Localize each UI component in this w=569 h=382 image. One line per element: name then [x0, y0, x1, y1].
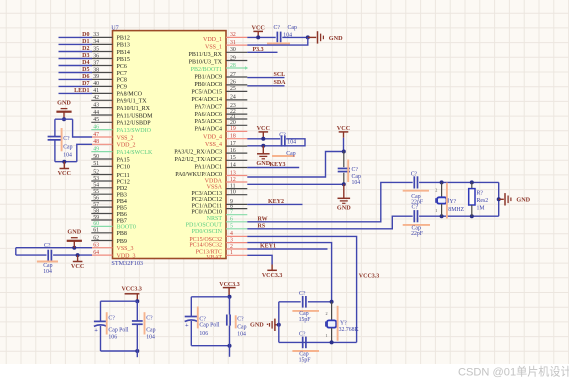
- pin 3 PC14/OSC32 (right): [226, 242, 247, 244]
- svg-text:58: 58: [93, 208, 99, 214]
- pin 53 PC12 (left): [91, 180, 112, 182]
- pin 2 PC13/RTC (right): [226, 248, 247, 250]
- svg-text:15: 15: [230, 155, 236, 161]
- svg-text:C?: C?: [146, 315, 153, 321]
- pin 40 PC9 (left): [91, 85, 112, 87]
- pin 60 BOOT0 (left): [91, 225, 112, 227]
- svg-text:34: 34: [93, 39, 99, 45]
- junction dot: [306, 35, 310, 39]
- svg-text:PB8: PB8: [117, 231, 127, 237]
- svg-text:C?: C?: [412, 205, 419, 211]
- svg-text:GND: GND: [516, 197, 530, 204]
- svg-text:42: 42: [93, 95, 99, 101]
- pin 52 PC11 (left): [91, 174, 112, 176]
- svg-text:12: 12: [230, 177, 236, 183]
- op-amp U7 STM32F103 MCU body: [113, 31, 227, 259]
- wire net LED1: [59, 92, 93, 94]
- capacitor C? Cap Poll 106 (group B electrolytic): [185, 316, 198, 318]
- capacitor C? Cap 22pF (top): [413, 176, 415, 188]
- svg-text:24: 24: [230, 95, 236, 101]
- pin 54 PD2 (left): [91, 187, 112, 189]
- wire net D1: [59, 43, 93, 45]
- svg-text:2: 2: [435, 188, 437, 193]
- svg-text:59: 59: [93, 215, 99, 221]
- wire group C top rail left: [279, 301, 301, 303]
- pin 45 PA12/USBDP (left): [91, 121, 112, 123]
- svg-text:11: 11: [230, 183, 236, 189]
- svg-text:10: 10: [230, 190, 236, 196]
- pin 30 PB11/U3_RX (right): [226, 51, 247, 53]
- wire GND stem to loop: [63, 112, 65, 120]
- wire VSS_1 return: [247, 37, 307, 45]
- pin 4 PC15/OSC32 (right): [226, 235, 247, 237]
- svg-text:KEY1: KEY1: [260, 244, 276, 250]
- junction dot: [277, 323, 281, 327]
- pin 24 PC4/ADC14 (right): [226, 99, 247, 101]
- svg-text:VDD_2: VDD_2: [117, 143, 136, 149]
- svg-text:PA5/ADC5: PA5/ADC5: [195, 119, 222, 125]
- svg-text:57: 57: [93, 202, 99, 208]
- capacitor C? Cap 15pF (top): [302, 296, 304, 308]
- pin 37 PC6 (left): [91, 65, 112, 67]
- pin 33 PB12 (left): [91, 36, 112, 38]
- resistor R? Res2 1M: [471, 182, 473, 188]
- svg-text:53: 53: [93, 176, 99, 182]
- pin 12 VSSA (right): [226, 181, 247, 183]
- svg-text:PB6: PB6: [117, 212, 127, 218]
- svg-text:PA6/ADC6: PA6/ADC6: [195, 112, 222, 118]
- svg-text:GND: GND: [57, 100, 71, 107]
- svg-text:VCC3.3: VCC3.3: [121, 286, 142, 292]
- svg-text:64: 64: [93, 250, 99, 256]
- capacitor C? Cap 104 (top): [276, 32, 278, 43]
- junction dot: [342, 182, 346, 186]
- pin 21 PA5/ADC5 (right): [226, 118, 247, 120]
- svg-text:16: 16: [230, 148, 236, 154]
- svg-text:PB7: PB7: [117, 218, 127, 224]
- svg-text:PB15: PB15: [117, 57, 130, 63]
- crystal Y? 32.768K: [331, 302, 333, 320]
- junction dot: [228, 344, 232, 348]
- pin 20 PA4/ADC4 (right): [226, 124, 247, 126]
- svg-text:PD0/OSCIN: PD0/OSCIN: [192, 229, 223, 235]
- pin 43 PA10/U1_RX (left): [91, 107, 112, 109]
- svg-text:VSS_4: VSS_4: [205, 142, 222, 148]
- svg-text:Cap: Cap: [63, 145, 72, 151]
- svg-text:25: 25: [230, 86, 236, 92]
- svg-text:GND: GND: [337, 205, 351, 212]
- wire pin 12 VSSA: [247, 183, 343, 185]
- wire net P3.3: [247, 51, 277, 53]
- svg-text:CSDN @01单片机设计: CSDN @01单片机设计: [458, 365, 569, 379]
- svg-text:14: 14: [230, 162, 236, 168]
- svg-text:PC7: PC7: [117, 71, 127, 77]
- svg-text:VSS_2: VSS_2: [117, 135, 134, 141]
- svg-text:PC9: PC9: [117, 85, 127, 91]
- svg-text:26: 26: [230, 80, 236, 86]
- svg-text:Cap: Cap: [146, 328, 155, 334]
- svg-text:21: 21: [230, 114, 236, 120]
- svg-text:54: 54: [93, 183, 99, 189]
- svg-text:D0: D0: [82, 32, 89, 38]
- svg-text:32: 32: [230, 32, 236, 38]
- pin 27 PB1/ADC9 (right): [226, 76, 247, 78]
- svg-text:PA0/WKUP/ADC0: PA0/WKUP/ADC0: [175, 172, 222, 178]
- svg-text:30: 30: [230, 47, 236, 53]
- junction dot: [497, 197, 501, 201]
- junction dot: [330, 340, 334, 344]
- svg-text:51: 51: [93, 161, 99, 167]
- svg-text:GND: GND: [329, 35, 343, 42]
- pin 18 VSS_4 (right): [226, 138, 247, 140]
- pin 47 VSS_2 (left): [91, 136, 112, 138]
- capacitor C? Cap 104 (analog): [343, 152, 345, 168]
- wire VCC down to junction: [343, 138, 345, 152]
- wire pin 4 PC15/OSC32 to crystal bottom rail: [247, 236, 356, 342]
- svg-text:32.768K: 32.768K: [339, 327, 360, 333]
- wire net RS (to 22pF cap): [247, 216, 412, 229]
- svg-text:PC10: PC10: [117, 165, 130, 171]
- ground symbol (left middle): [56, 111, 71, 113]
- wire left jog: [15, 248, 17, 255]
- svg-text:PA1/ADC1: PA1/ADC1: [195, 165, 222, 171]
- pin 9 PC1/ADC11 (right): [226, 203, 247, 205]
- wire group C top rail right: [308, 301, 332, 303]
- svg-text:15pF: 15pF: [299, 317, 312, 323]
- svg-text:104: 104: [43, 269, 52, 275]
- svg-text:106: 106: [199, 331, 208, 337]
- svg-text:Cap Poll: Cap Poll: [199, 322, 220, 328]
- svg-text:2: 2: [230, 244, 233, 250]
- capacitor C? Cap 104 (left middle): [48, 136, 63, 138]
- svg-text:D5: D5: [82, 67, 89, 73]
- pin 28 PB2/BOOT1 (right): [226, 67, 245, 69]
- svg-text:8MHZ: 8MHZ: [448, 207, 464, 213]
- svg-text:PB9: PB9: [117, 239, 127, 245]
- junction dot: [470, 214, 474, 218]
- svg-text:VDDA: VDDA: [205, 178, 223, 184]
- svg-text:PB12: PB12: [117, 36, 130, 42]
- svg-text:7: 7: [230, 210, 233, 216]
- pin 64 VDD_3 (left): [91, 254, 112, 256]
- svg-text:PA3/U2_RX/ADC3: PA3/U2_RX/ADC3: [174, 149, 222, 155]
- wire net SDA: [247, 85, 284, 87]
- svg-text:Res2: Res2: [477, 198, 489, 204]
- capacitor C? Cap 104 (bottom left): [47, 250, 49, 261]
- svg-text:5: 5: [230, 224, 233, 230]
- svg-text:SDA: SDA: [274, 80, 287, 86]
- svg-text:61: 61: [93, 228, 99, 234]
- wire group B right vertical: [229, 297, 231, 315]
- wire net D2: [59, 51, 93, 53]
- svg-text:Cap Poll: Cap Poll: [108, 328, 129, 334]
- wire net D7: [59, 85, 93, 87]
- svg-text:D3: D3: [82, 53, 89, 59]
- svg-text:8: 8: [230, 203, 233, 209]
- svg-text:D7: D7: [82, 81, 89, 87]
- junction dot: [440, 180, 444, 184]
- pin 56 PB4 (left): [91, 200, 112, 202]
- svg-text:PD1/OSCOUT: PD1/OSCOUT: [186, 223, 223, 229]
- svg-text:PC2/ADC12: PC2/ADC12: [191, 197, 222, 203]
- ground symbol (mid right): [262, 146, 264, 154]
- svg-text:PC14/OSC32: PC14/OSC32: [189, 243, 222, 249]
- pin 34 PB13 (left): [91, 43, 112, 45]
- svg-text:C?: C?: [108, 315, 115, 321]
- pin 6 PD1/OSCOUT (right): [226, 221, 247, 223]
- svg-text:1: 1: [230, 250, 233, 256]
- svg-text:PA10/U1_RX: PA10/U1_RX: [117, 106, 151, 112]
- wire pin 13 VDDA: [247, 152, 343, 178]
- junction dot: [330, 300, 334, 304]
- pin 41 PA8/MCO (left): [91, 92, 112, 94]
- svg-text:VSS_3: VSS_3: [117, 246, 134, 252]
- svg-text:C?: C?: [279, 132, 286, 138]
- svg-text:NRST: NRST: [207, 216, 223, 222]
- svg-text:3: 3: [230, 237, 233, 243]
- pin 44 PA11/USBDM (left): [91, 114, 112, 116]
- svg-text:60: 60: [93, 221, 99, 227]
- wire net D3: [59, 58, 93, 60]
- svg-text:C?: C?: [299, 331, 306, 337]
- svg-text:41: 41: [93, 88, 99, 94]
- wire cap to GND junction: [282, 36, 308, 38]
- junction dot: [261, 137, 265, 141]
- svg-text:PB4: PB4: [117, 199, 127, 205]
- svg-text:56: 56: [93, 196, 99, 202]
- pin 46 PA13/SWDIO (left): [91, 129, 112, 131]
- svg-text:VCC: VCC: [257, 125, 270, 132]
- svg-text:PB1/ADC9: PB1/ADC9: [194, 75, 222, 81]
- pin 61 PB8 (left): [91, 232, 112, 234]
- capacitor C? Cap 22pF (bottom): [413, 210, 415, 222]
- pin 39 PC8 (left): [91, 78, 112, 80]
- svg-text:43: 43: [93, 102, 99, 108]
- svg-text:C?: C?: [299, 291, 306, 297]
- junction dot: [470, 180, 474, 184]
- svg-text:D1: D1: [82, 39, 89, 45]
- svg-text:KEY2: KEY2: [268, 199, 284, 205]
- svg-text:22pF: 22pF: [411, 231, 424, 237]
- wire group B top rail: [191, 296, 229, 298]
- pin 59 PB7 (left): [91, 219, 112, 221]
- pin 22 PA6/ADC6 (right): [226, 113, 247, 115]
- pin 11 PC3/ADC13 (right): [226, 188, 247, 190]
- wire group B left vertical upper: [190, 297, 192, 317]
- svg-text:SCL: SCL: [274, 72, 286, 78]
- pin 32 VDD_1 (right): [226, 36, 247, 38]
- svg-text:+: +: [94, 327, 98, 334]
- svg-text:20: 20: [230, 120, 236, 126]
- junction dot: [135, 299, 139, 303]
- svg-text:50: 50: [93, 154, 99, 160]
- pin 15 PA1/ADC1 (right): [226, 159, 247, 161]
- pin 48 VDD_2 (left): [91, 143, 112, 145]
- svg-text:1: 1: [435, 208, 437, 213]
- pin 49 PA14/SWCLK (left): [91, 151, 112, 153]
- junction dot: [342, 150, 346, 154]
- wire group A bottom rail: [101, 350, 138, 352]
- crystal Y? 8MHZ: [441, 182, 443, 197]
- svg-text:38: 38: [93, 67, 99, 73]
- pin 42 PA9/U1_TX (left): [91, 99, 112, 101]
- svg-text:VCC: VCC: [251, 25, 264, 32]
- wire group A left vertical lower: [100, 326, 102, 351]
- svg-text:PB3: PB3: [117, 193, 127, 199]
- junction dot: [76, 253, 80, 257]
- pin 57 PB5 (left): [91, 206, 112, 208]
- svg-text:27: 27: [230, 72, 236, 78]
- power symbol VCC (top): [257, 31, 259, 37]
- junction dot: [72, 246, 76, 250]
- pin 23 PA7/ADC7 (right): [226, 107, 247, 109]
- svg-text:C?: C?: [352, 167, 359, 173]
- svg-text:Y?: Y?: [450, 199, 457, 205]
- svg-text:PD2: PD2: [117, 186, 128, 192]
- svg-text:P3.3: P3.3: [253, 47, 264, 53]
- svg-text:2: 2: [326, 311, 328, 316]
- svg-text:C?: C?: [411, 172, 418, 178]
- svg-text:45: 45: [93, 117, 99, 123]
- svg-text:35: 35: [93, 46, 99, 52]
- wire loop left vertical upper: [54, 119, 56, 136]
- pin 51 PC10 (left): [91, 165, 112, 167]
- wire net RW (to 22pF cap): [247, 182, 412, 221]
- wire net D5: [59, 72, 93, 74]
- wire group A top rail: [101, 300, 138, 302]
- svg-text:VDD_3: VDD_3: [117, 253, 136, 259]
- svg-text:PC1/ADC11: PC1/ADC11: [192, 203, 222, 209]
- svg-text:PA13/SWDIO: PA13/SWDIO: [117, 128, 152, 134]
- pin 58 PB6 (left): [91, 213, 112, 215]
- wire group A left vertical upper: [100, 301, 102, 321]
- svg-text:47: 47: [93, 132, 99, 138]
- wire cap to VSS_4 return: [247, 139, 305, 146]
- svg-text:PC6: PC6: [117, 64, 127, 70]
- wire group A right vertical + tail: [136, 301, 138, 321]
- svg-text:PC12: PC12: [117, 179, 130, 185]
- junction dot: [261, 144, 265, 148]
- svg-text:D4: D4: [82, 60, 89, 66]
- ground symbol (bottom left): [73, 241, 75, 248]
- svg-text:VCC: VCC: [58, 170, 71, 177]
- svg-text:19: 19: [230, 126, 236, 132]
- junction dot: [256, 35, 260, 39]
- svg-text:D2: D2: [82, 46, 89, 52]
- pin 31 VSS_1 (right): [226, 44, 247, 46]
- svg-text:PA2/U2_TX/ADC2: PA2/U2_TX/ADC2: [175, 157, 222, 163]
- svg-text:VSS_1: VSS_1: [205, 45, 222, 51]
- pin 26 PB0/ADC8 (right): [226, 84, 247, 86]
- svg-text:55: 55: [93, 189, 99, 195]
- wire loop top rail: [55, 118, 73, 120]
- svg-text:VDD_1: VDD_1: [203, 37, 222, 43]
- svg-text:17: 17: [230, 141, 236, 147]
- svg-text:1: 1: [326, 333, 328, 338]
- pin 17 PA3/U2_RX/ADC3 (right): [226, 145, 247, 147]
- capacitor C? Cap 104 (group A): [132, 320, 143, 322]
- wire pin 64 VDD_3 rail left segment: [16, 254, 47, 256]
- pin 7 NRST (right): [226, 214, 247, 216]
- svg-text:PA4/ADC4: PA4/ADC4: [195, 127, 222, 133]
- pin 62 PB9 (left): [91, 240, 112, 242]
- svg-text:C?: C?: [44, 243, 51, 249]
- svg-text:36: 36: [93, 53, 99, 59]
- pin 55 PB3 (left): [91, 193, 112, 195]
- svg-text:PC5/ADC15: PC5/ADC15: [191, 90, 222, 96]
- wire pin 1 VBAT down: [247, 255, 272, 264]
- capacitor C? Cap Poll 106 (group A electrolytic): [94, 320, 107, 322]
- svg-text:Cap: Cap: [352, 174, 361, 180]
- wire right vertical: [498, 182, 500, 216]
- svg-text:37: 37: [93, 60, 99, 66]
- power symbol VCC (bottom left): [77, 255, 79, 261]
- wire loop bottom rail: [55, 161, 77, 163]
- svg-text:PA8/MCO: PA8/MCO: [117, 92, 143, 98]
- svg-text:PA7/ADC7: PA7/ADC7: [195, 104, 222, 110]
- pin 36 PB15 (left): [91, 58, 112, 60]
- svg-text:PB0/ADC8: PB0/ADC8: [194, 82, 222, 88]
- svg-text:PA14/SWCLK: PA14/SWCLK: [117, 150, 153, 156]
- junction dot: [62, 160, 66, 164]
- svg-text:D6: D6: [82, 74, 89, 80]
- svg-text:15pF: 15pF: [299, 358, 312, 364]
- power symbol VCC (above analog cap): [339, 131, 349, 133]
- capacitor C? Cap 104 (group B, rotated): [226, 315, 228, 326]
- wire net D6: [59, 78, 93, 80]
- ground symbol (analog): [343, 184, 345, 198]
- pin 14 PA0/WKUP/ADC0 (right): [226, 167, 247, 169]
- pin 5 PD0/OSCIN (right): [226, 228, 247, 230]
- junction dot: [62, 117, 66, 121]
- wire to pin 48 VDD_2: [77, 144, 92, 161]
- svg-text:+: +: [185, 322, 189, 329]
- svg-text:VCC3.3: VCC3.3: [262, 273, 283, 279]
- svg-text:C?: C?: [237, 317, 244, 323]
- svg-text:GND: GND: [250, 322, 264, 329]
- wire top rail to crystal: [419, 181, 499, 183]
- pin 1 VBAT (right): [226, 254, 247, 256]
- svg-text:29: 29: [230, 55, 236, 61]
- svg-text:44: 44: [93, 110, 99, 116]
- svg-text:Cap: Cap: [288, 25, 297, 31]
- svg-text:BOOT0: BOOT0: [117, 225, 136, 231]
- svg-text:1M: 1M: [477, 205, 485, 211]
- svg-text:U7: U7: [111, 24, 119, 31]
- wire bottom rail to right: [419, 215, 499, 217]
- svg-text:KEY3: KEY3: [270, 162, 286, 168]
- svg-text:PC8: PC8: [117, 78, 127, 84]
- svg-text:104: 104: [237, 332, 246, 338]
- svg-text:18: 18: [230, 134, 236, 140]
- capacitor C? Cap 15pF (bottom): [302, 337, 304, 349]
- wire to pin 47 VSS_2: [73, 119, 92, 137]
- svg-text:VBAT: VBAT: [206, 255, 222, 261]
- wire group C bottom rail: [279, 341, 357, 343]
- svg-text:49: 49: [93, 146, 99, 152]
- pin 19 VDD_4 (right): [226, 130, 247, 132]
- svg-text:C?: C?: [274, 25, 281, 31]
- pin 10 PC2/ADC12 (right): [226, 194, 247, 196]
- svg-text:48: 48: [93, 139, 99, 145]
- wire pin 64 VDD_3 rail right segment: [53, 254, 92, 256]
- svg-text:4: 4: [230, 231, 233, 237]
- power symbol VCC3.3 (inverted, pin 1): [271, 265, 273, 271]
- wire group B bottom rail: [191, 345, 229, 347]
- wire pin 32 VDD_1 to cap: [247, 36, 275, 38]
- svg-text:VCC: VCC: [337, 125, 350, 132]
- svg-text:104: 104: [63, 153, 72, 159]
